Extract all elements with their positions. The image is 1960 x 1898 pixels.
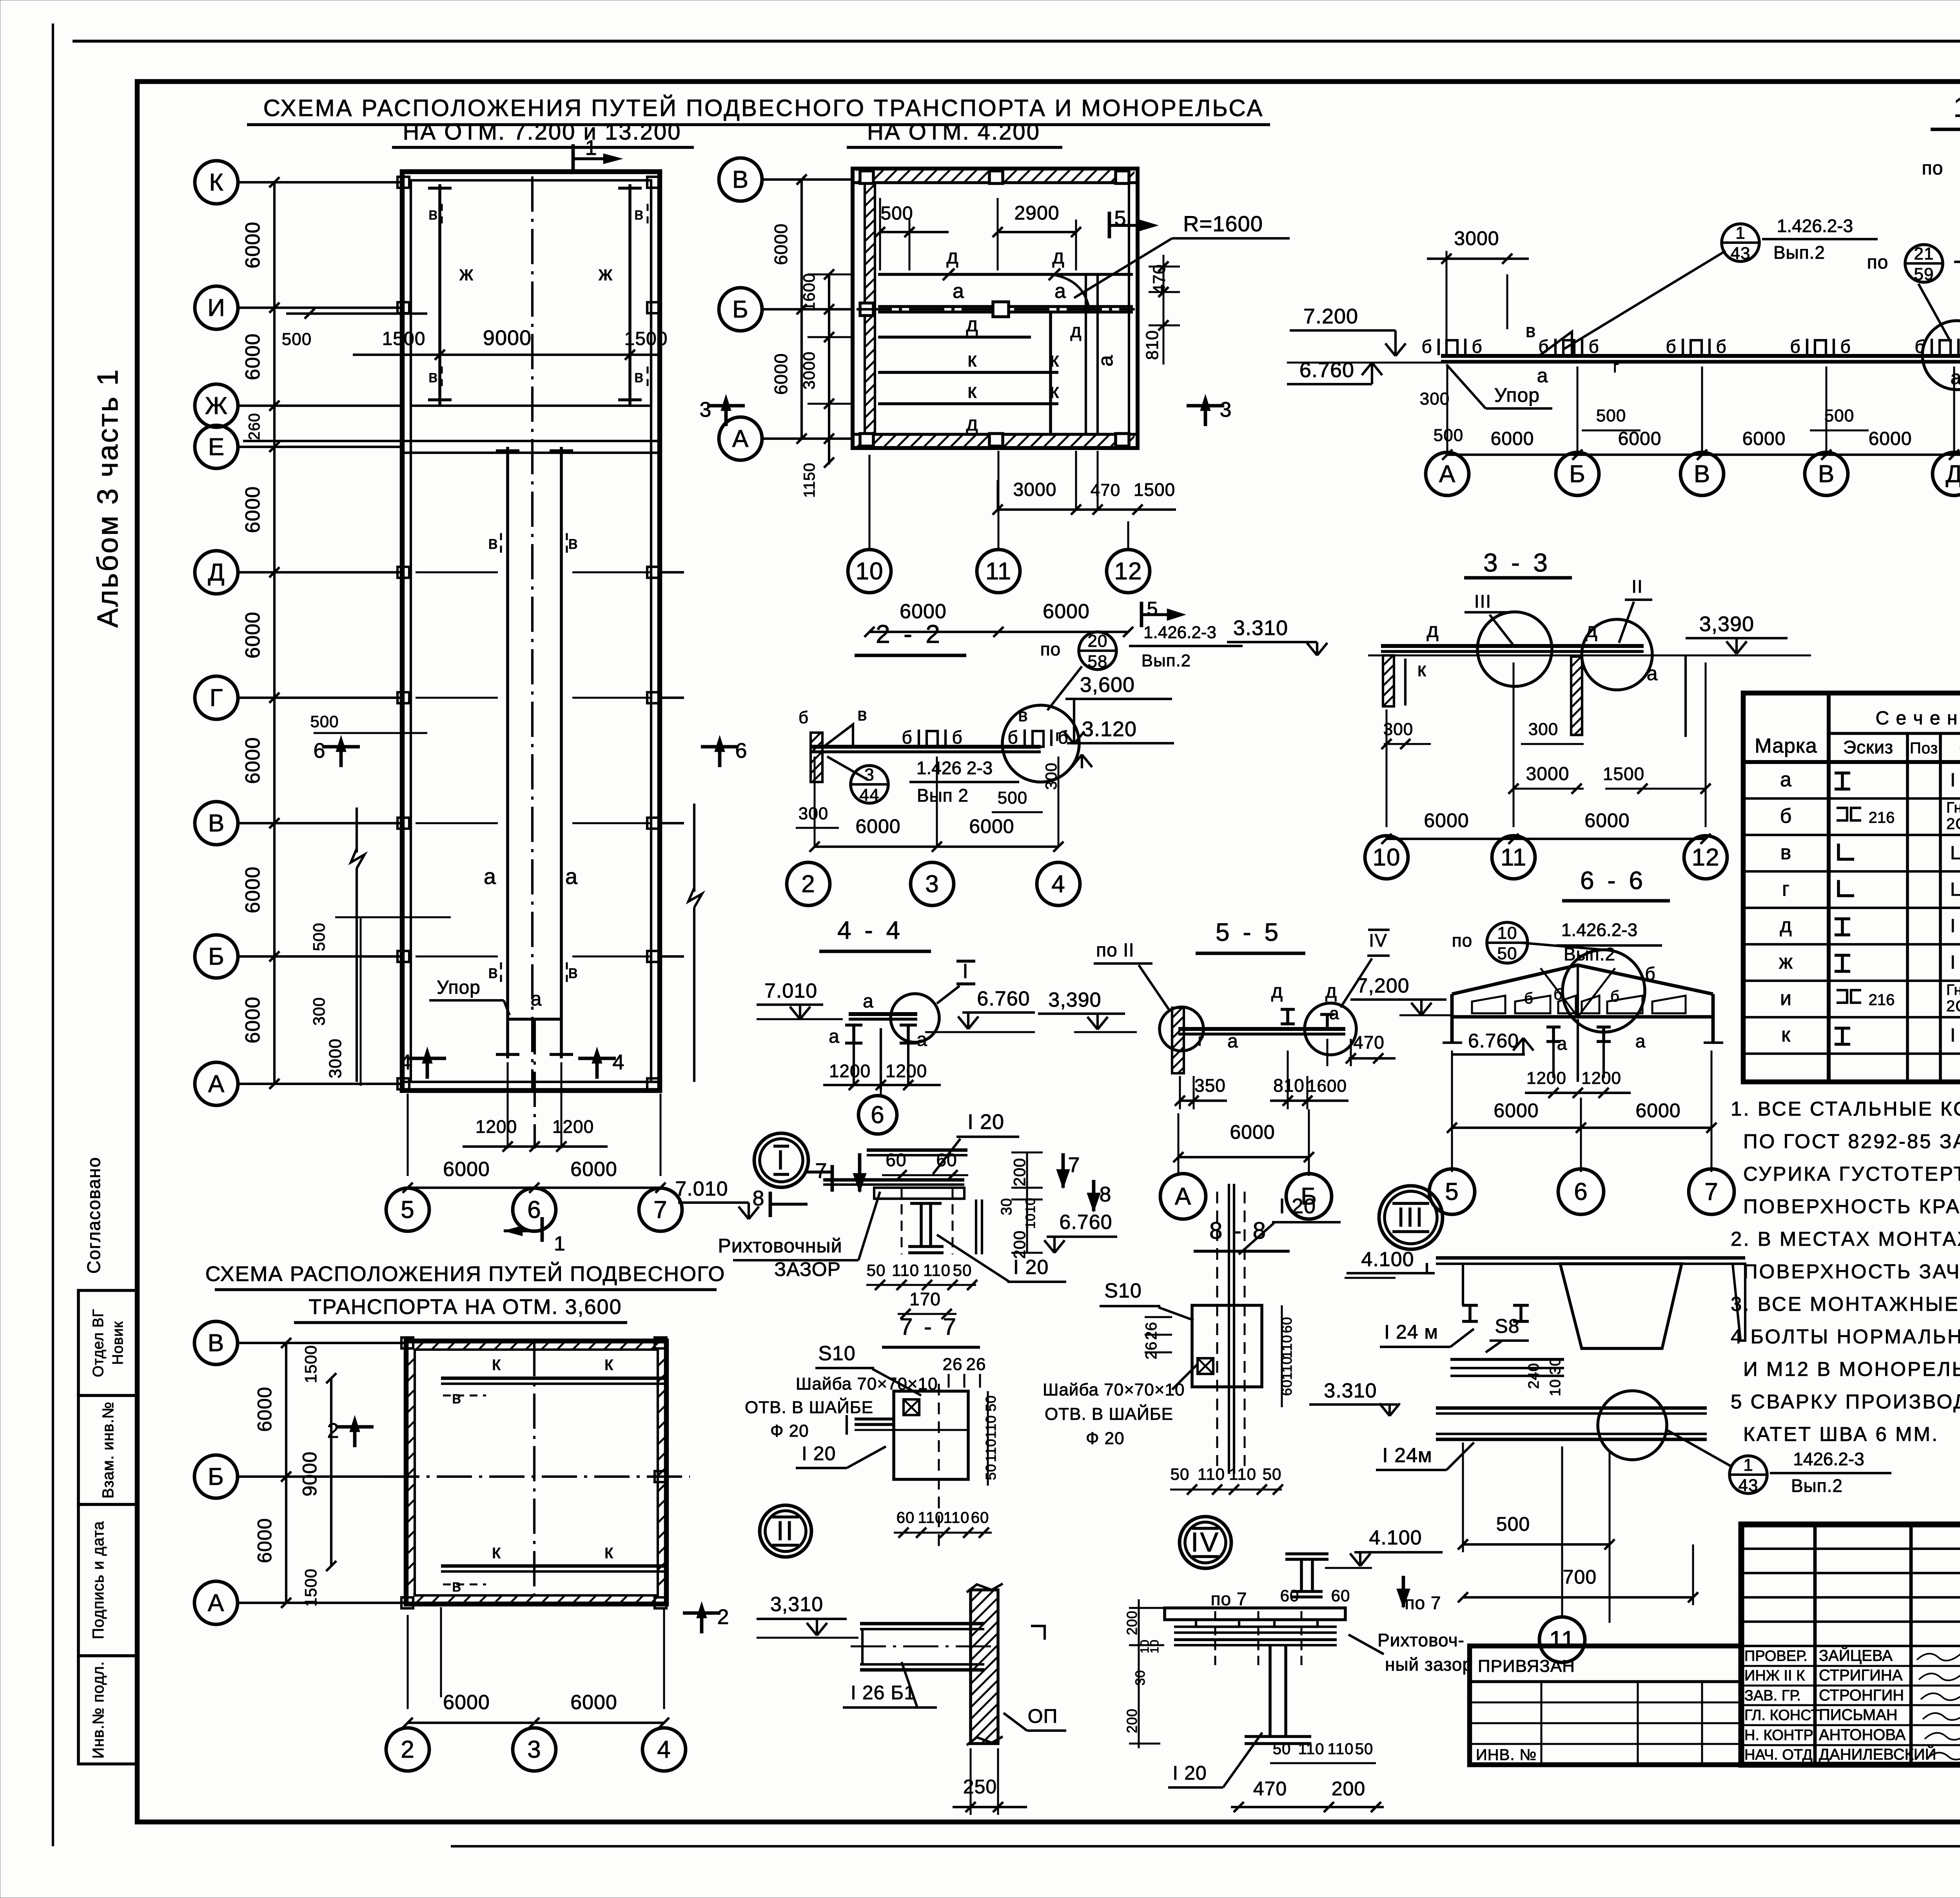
- svg-text:10: 10: [1148, 1639, 1161, 1653]
- svg-text:I 24м: I 24м: [1382, 1444, 1432, 1467]
- svg-text:6000: 6000: [570, 1691, 617, 1714]
- svg-text:6000: 6000: [241, 333, 264, 380]
- svg-text:60: 60: [936, 1150, 957, 1170]
- svg-text:б: б: [1524, 990, 1534, 1007]
- svg-text:в: в: [428, 204, 438, 223]
- svg-text:50: 50: [1263, 1465, 1282, 1483]
- svg-text:а: а: [953, 280, 964, 303]
- svg-text:Поз: Поз: [1910, 740, 1938, 757]
- svg-text:6000: 6000: [969, 815, 1014, 837]
- svg-text:ЗАЙЦЕВА: ЗАЙЦЕВА: [1819, 1646, 1893, 1664]
- svg-text:Б: Б: [208, 1463, 224, 1490]
- svg-text:6000: 6000: [1043, 600, 1090, 623]
- svg-text:1.426.2-3: 1.426.2-3: [1561, 920, 1637, 940]
- svg-text:С е ч е н и е: С е ч е н и е: [1875, 708, 1960, 729]
- svg-text:110: 110: [918, 1509, 944, 1526]
- svg-text:по II: по II: [1096, 940, 1134, 961]
- svg-text:250: 250: [963, 1776, 997, 1798]
- svg-text:7.010: 7.010: [675, 1178, 728, 1200]
- svg-text:500: 500: [310, 922, 328, 951]
- svg-text:11: 11: [1549, 1626, 1575, 1653]
- svg-text:г: г: [1613, 357, 1619, 376]
- svg-text:ПРИВЯЗАН: ПРИВЯЗАН: [1478, 1657, 1575, 1676]
- svg-text:300: 300: [799, 804, 828, 823]
- svg-text:ГЛ. КОНСТ: ГЛ. КОНСТ: [1744, 1707, 1820, 1724]
- svg-text:2. В МЕСТАХ МОНТАЖНЫХ СТЫКОВ: 2. В МЕСТАХ МОНТАЖНЫХ СТЫКОВ МОНОРЕЛЬСА …: [1731, 1228, 1960, 1250]
- svg-text:ПИСЬМАН: ПИСЬМАН: [1819, 1706, 1898, 1724]
- svg-text:1: 1: [1735, 223, 1745, 243]
- svg-text:Г: Г: [210, 684, 223, 711]
- svg-text:в: в: [452, 1388, 461, 1407]
- svg-text:1500: 1500: [301, 1345, 320, 1383]
- svg-text:10: 10: [1023, 1213, 1038, 1229]
- svg-text:а: а: [829, 1026, 840, 1047]
- svg-text:110: 110: [1198, 1465, 1225, 1483]
- svg-text:6000: 6000: [241, 486, 264, 533]
- svg-text:по 7: по 7: [1211, 1589, 1247, 1609]
- svg-text:30: 30: [1547, 1357, 1564, 1375]
- svg-text:а: а: [1329, 1004, 1339, 1023]
- svg-text:д: д: [966, 313, 978, 336]
- svg-text:д: д: [1325, 980, 1337, 1002]
- svg-text:8: 8: [752, 1187, 764, 1210]
- svg-text:I 20: I 20: [1950, 770, 1960, 791]
- svg-text:2900: 2900: [1014, 202, 1059, 224]
- svg-text:6000: 6000: [771, 353, 791, 395]
- svg-text:СТРОНГИН: СТРОНГИН: [1819, 1687, 1904, 1704]
- svg-text:7.010: 7.010: [764, 980, 817, 1002]
- svg-text:I: I: [777, 1145, 786, 1175]
- svg-text:д: д: [946, 245, 958, 268]
- svg-text:Рихтовоч-: Рихтовоч-: [1377, 1630, 1465, 1650]
- svg-text:И М12 В МОНОРЕЛЬСАХ ГОСТ: И М12 В МОНОРЕЛЬСАХ ГОСТ 7798-70ˣ , ГАЙК…: [1743, 1357, 1960, 1380]
- svg-text:1500: 1500: [624, 328, 668, 349]
- svg-text:58: 58: [1088, 652, 1108, 671]
- svg-text:6000: 6000: [1424, 809, 1469, 831]
- svg-text:Эскиз: Эскиз: [1843, 737, 1893, 757]
- svg-text:IV: IV: [1369, 930, 1387, 951]
- svg-text:470: 470: [1353, 1032, 1385, 1052]
- svg-text:500: 500: [880, 203, 913, 224]
- svg-text:I 24 м: I 24 м: [1384, 1321, 1438, 1343]
- svg-text:1: 1: [554, 1232, 566, 1255]
- svg-text:а: а: [565, 864, 578, 889]
- svg-text:110: 110: [944, 1509, 970, 1526]
- svg-text:1: 1: [1743, 1455, 1753, 1475]
- svg-text:И: И: [207, 294, 225, 321]
- svg-text:7: 7: [1068, 1153, 1080, 1177]
- svg-text:а: а: [531, 988, 542, 1010]
- svg-text:Б: Б: [732, 296, 749, 323]
- svg-text:А: А: [1439, 461, 1455, 488]
- svg-text:10: 10: [1373, 844, 1401, 871]
- svg-text:ПРОВЕР.: ПРОВЕР.: [1744, 1648, 1808, 1664]
- svg-text:6000: 6000: [1618, 428, 1662, 449]
- svg-text:43: 43: [1731, 244, 1751, 263]
- svg-text:3.310: 3.310: [1233, 616, 1288, 640]
- svg-text:3000: 3000: [1013, 479, 1057, 500]
- svg-text:I 20: I 20: [967, 1110, 1004, 1134]
- svg-text:4 БОЛТЫ НОРМАЛЬНОЙ ТОЧНОСТИ: 4 БОЛТЫ НОРМАЛЬНОЙ ТОЧНОСТИ М16 В ПОДКРА…: [1731, 1325, 1960, 1348]
- svg-text:к: к: [604, 1541, 613, 1562]
- svg-text:4.100: 4.100: [1361, 1248, 1414, 1271]
- svg-text:1. ВСЕ СТАЛЬНЫЕ КОНСТРУКЦИИ ОК: 1. ВСЕ СТАЛЬНЫЕ КОНСТРУКЦИИ ОКРАСИТЬ МАС…: [1731, 1097, 1960, 1120]
- svg-text:в: в: [634, 204, 644, 223]
- svg-text:Вып.2: Вып.2: [1791, 1475, 1843, 1496]
- svg-text:9000: 9000: [299, 1451, 321, 1496]
- svg-text:1 - 1: 1 - 1: [1953, 92, 1960, 123]
- svg-text:3,600: 3,600: [1080, 673, 1135, 697]
- svg-text:500: 500: [1434, 426, 1463, 445]
- svg-text:б: б: [1716, 336, 1726, 357]
- svg-text:Д: Д: [1946, 461, 1960, 488]
- svg-text:3,390: 3,390: [1048, 989, 1101, 1011]
- svg-text:6000: 6000: [1494, 1100, 1539, 1121]
- svg-text:3: 3: [925, 871, 939, 898]
- svg-text:Гн пр.: Гн пр.: [1946, 982, 1960, 998]
- svg-text:I 20: I 20: [1172, 1762, 1207, 1784]
- svg-text:60: 60: [897, 1509, 915, 1526]
- svg-text:6000: 6000: [1869, 428, 1912, 449]
- svg-text:III: III: [1397, 1202, 1425, 1232]
- svg-text:д: д: [1426, 619, 1439, 642]
- svg-text:43: 43: [1739, 1476, 1759, 1495]
- svg-text:а: а: [863, 991, 874, 1012]
- svg-text:5: 5: [1445, 1178, 1459, 1205]
- svg-text:810: 810: [1273, 1075, 1305, 1096]
- svg-text:ПОВЕРХНОСТЬ КРАСКА НЕ НАН: ПОВЕРХНОСТЬ КРАСКА НЕ НАНОСИТСЯ.: [1743, 1195, 1960, 1218]
- svg-text:б: б: [1472, 336, 1482, 357]
- svg-text:Д: Д: [208, 559, 225, 586]
- svg-text:СУРИКА ГУСТОТЕРТОГО НА ОЛИФ: СУРИКА ГУСТОТЕРТОГО НА ОЛИФЕ “ОКСОЛЬ” , …: [1743, 1163, 1960, 1185]
- svg-text:НА ОТМ. 4.200: НА ОТМ. 4.200: [867, 119, 1040, 145]
- svg-text:ПО ГОСТ 8292-85 ЗА 2 РАЗА: ПО ГОСТ 8292-85 ЗА 2 РАЗА ПО ГРУНТОВКЕ И…: [1743, 1130, 1960, 1152]
- svg-text:60: 60: [1280, 1586, 1299, 1605]
- svg-text:Ф 20: Ф 20: [770, 1421, 809, 1441]
- svg-text:170: 170: [909, 1289, 941, 1309]
- svg-text:по: по: [1922, 158, 1944, 179]
- svg-text:5 - 5: 5 - 5: [1216, 918, 1281, 946]
- svg-text:IV: IV: [1191, 1527, 1220, 1557]
- svg-text:в: в: [568, 532, 578, 553]
- svg-text:Б: Б: [1569, 461, 1586, 488]
- svg-text:3 - 3: 3 - 3: [1483, 548, 1551, 577]
- svg-text:216: 216: [1869, 991, 1895, 1009]
- svg-text:1500: 1500: [382, 328, 426, 349]
- svg-text:I 20: I 20: [1279, 1194, 1316, 1218]
- svg-text:а: а: [1054, 280, 1066, 303]
- svg-text:в: в: [1018, 705, 1028, 725]
- svg-text:Упор: Упор: [437, 977, 481, 998]
- svg-text:г: г: [1198, 1031, 1204, 1050]
- svg-text:а: а: [1227, 1031, 1238, 1052]
- svg-text:3,310: 3,310: [770, 1593, 823, 1616]
- svg-text:ОТВ. В ШАЙБЕ: ОТВ. В ШАЙБЕ: [745, 1397, 873, 1417]
- svg-text:д: д: [1780, 914, 1792, 937]
- svg-text:7 - 7: 7 - 7: [900, 1314, 958, 1340]
- svg-text:НА ОТМ. 7.200 и 13.200: НА ОТМ. 7.200 и 13.200: [403, 119, 682, 145]
- svg-text:44: 44: [860, 786, 880, 805]
- svg-text:3: 3: [527, 1736, 541, 1763]
- svg-text:6000: 6000: [241, 737, 264, 784]
- svg-text:4: 4: [1051, 871, 1065, 898]
- svg-text:г: г: [1782, 878, 1790, 900]
- svg-text:б: б: [1840, 336, 1851, 357]
- svg-text:Новик: Новик: [110, 1321, 126, 1365]
- svg-text:110: 110: [983, 1439, 999, 1462]
- svg-text:ИНЖ II К: ИНЖ II К: [1744, 1668, 1805, 1684]
- svg-text:3: 3: [699, 398, 711, 421]
- svg-text:470: 470: [1091, 481, 1120, 500]
- svg-text:110: 110: [1298, 1740, 1325, 1758]
- svg-text:б: б: [1610, 988, 1620, 1005]
- svg-text:НАЧ. ОТД: НАЧ. ОТД: [1744, 1747, 1813, 1763]
- svg-text:6000: 6000: [241, 996, 264, 1043]
- svg-text:200: 200: [1124, 1708, 1140, 1733]
- svg-text:ОП: ОП: [1028, 1705, 1058, 1727]
- svg-text:30: 30: [1133, 1670, 1148, 1686]
- svg-text:6000: 6000: [241, 611, 264, 659]
- svg-text:б: б: [1790, 336, 1800, 357]
- svg-text:Упор: Упор: [1494, 384, 1540, 406]
- svg-text:и: и: [1780, 987, 1792, 1010]
- svg-text:А: А: [208, 1590, 224, 1617]
- svg-text:1500: 1500: [1603, 764, 1644, 784]
- svg-text:6000: 6000: [443, 1691, 490, 1714]
- svg-text:д: д: [1070, 321, 1082, 341]
- svg-text:200: 200: [1124, 1610, 1140, 1635]
- svg-text:6.760: 6.760: [977, 987, 1030, 1010]
- svg-text:1150: 1150: [801, 463, 818, 498]
- svg-text:В: В: [1694, 461, 1710, 488]
- svg-text:I 24М: I 24М: [1950, 1025, 1960, 1046]
- svg-text:1426.2-3: 1426.2-3: [1793, 1449, 1864, 1469]
- svg-text:1200: 1200: [475, 1116, 517, 1137]
- svg-text:500: 500: [1596, 406, 1626, 425]
- svg-text:26: 26: [1143, 1341, 1160, 1360]
- svg-text:б: б: [1588, 336, 1599, 357]
- svg-text:Шайба 70×70×10: Шайба 70×70×10: [1043, 1380, 1185, 1399]
- svg-text:ТРАНСПОРТА НА ОТМ. 3,600: ТРАНСПОРТА НА ОТМ. 3,600: [309, 1295, 622, 1319]
- svg-text:А: А: [208, 1071, 225, 1098]
- svg-text:3.310: 3.310: [1324, 1379, 1377, 1402]
- svg-text:10: 10: [1497, 924, 1517, 943]
- svg-text:КАТЕТ ШВА 6 ММ.: КАТЕТ ШВА 6 ММ.: [1743, 1423, 1939, 1445]
- svg-text:11: 11: [985, 558, 1011, 585]
- svg-text:б: б: [952, 727, 962, 748]
- svg-text:50: 50: [1497, 944, 1517, 963]
- svg-text:д: д: [1052, 245, 1064, 268]
- svg-text:4: 4: [612, 1051, 624, 1074]
- svg-text:12: 12: [1692, 844, 1720, 871]
- svg-text:Инв.№ подл.: Инв.№ подл.: [90, 1661, 107, 1758]
- svg-text:к: к: [1781, 1023, 1791, 1046]
- svg-text:б: б: [799, 708, 809, 727]
- svg-text:12: 12: [1114, 558, 1142, 585]
- svg-text:110: 110: [923, 1261, 951, 1279]
- svg-text:ИНВ. №: ИНВ. №: [1476, 1746, 1537, 1764]
- svg-text:6000: 6000: [570, 1158, 617, 1181]
- svg-text:60: 60: [971, 1509, 989, 1526]
- svg-text:I 20: I 20: [802, 1443, 836, 1464]
- svg-text:К: К: [209, 169, 223, 196]
- svg-text:1: 1: [585, 136, 597, 160]
- svg-text:1600: 1600: [800, 273, 818, 311]
- svg-text:Вып.2: Вып.2: [1773, 242, 1825, 263]
- svg-text:3000: 3000: [1454, 227, 1499, 249]
- svg-text:300: 300: [1043, 762, 1060, 790]
- svg-text:СХЕМА РАСПОЛОЖЕНИЯ ПУТЕЙ ПО: СХЕМА РАСПОЛОЖЕНИЯ ПУТЕЙ ПОДВЕСНОГО ТРАН…: [263, 95, 1264, 121]
- svg-text:10: 10: [856, 558, 884, 585]
- svg-text:350: 350: [1194, 1075, 1226, 1096]
- svg-text:5: 5: [1147, 598, 1158, 620]
- svg-text:ный зазор: ный зазор: [1385, 1654, 1473, 1675]
- svg-text:9000: 9000: [483, 326, 532, 350]
- svg-text:в: в: [1526, 321, 1536, 341]
- svg-text:Марка: Марка: [1755, 735, 1817, 757]
- svg-text:4: 4: [657, 1736, 671, 1763]
- svg-text:Отдел ВГ: Отдел ВГ: [90, 1309, 107, 1377]
- svg-text:3.120: 3.120: [1082, 717, 1137, 741]
- svg-text:500: 500: [310, 712, 339, 731]
- svg-text:Вып.2: Вып.2: [1142, 651, 1191, 670]
- svg-text:6: 6: [313, 739, 325, 762]
- svg-text:260: 260: [246, 413, 263, 440]
- svg-text:Н. КОНТР: Н. КОНТР: [1744, 1727, 1813, 1744]
- svg-text:ж: ж: [459, 262, 474, 285]
- svg-text:300: 300: [310, 997, 328, 1025]
- svg-text:III: III: [1474, 591, 1492, 611]
- svg-text:50: 50: [953, 1261, 972, 1279]
- svg-text:5: 5: [401, 1196, 414, 1223]
- svg-text:ОТВ. В ШАЙБЕ: ОТВ. В ШАЙБЕ: [1045, 1404, 1173, 1424]
- svg-text:6000: 6000: [1635, 1100, 1681, 1121]
- svg-text:3,390: 3,390: [1699, 612, 1754, 636]
- svg-text:I 26 Б1: I 26 Б1: [1950, 916, 1960, 936]
- svg-text:6: 6: [1574, 1178, 1588, 1205]
- svg-text:В: В: [1818, 461, 1835, 488]
- svg-text:6000: 6000: [1230, 1121, 1275, 1143]
- svg-text:26: 26: [943, 1355, 963, 1374]
- svg-text:26: 26: [1143, 1322, 1160, 1340]
- svg-text:СХЕМА РАСПОЛОЖЕНИЯ ПУТЕЙ ПОДВЕ: СХЕМА РАСПОЛОЖЕНИЯ ПУТЕЙ ПОДВЕСНОГО: [205, 1262, 726, 1286]
- svg-text:6000: 6000: [855, 815, 900, 837]
- svg-text:б: б: [1645, 964, 1655, 984]
- svg-text:6000: 6000: [241, 866, 264, 913]
- svg-text:в: в: [857, 704, 867, 724]
- svg-text:50: 50: [1171, 1465, 1190, 1483]
- svg-text:1200: 1200: [829, 1061, 871, 1081]
- svg-text:Согласовано: Согласовано: [83, 1157, 104, 1274]
- svg-text:б: б: [1007, 727, 1018, 748]
- svg-text:3: 3: [864, 765, 874, 784]
- svg-text:4 - 4: 4 - 4: [837, 916, 903, 944]
- svg-text:2: 2: [717, 1605, 729, 1629]
- svg-text:5 СВАРКУ ПРОИЗВОДИТЬ ЭЛЕКТРО: 5 СВАРКУ ПРОИЗВОДИТЬ ЭЛЕКТРОДАМИ ТИПА Э4…: [1731, 1390, 1960, 1413]
- svg-text:Е: Е: [208, 434, 225, 461]
- svg-text:I: I: [962, 960, 968, 983]
- svg-text:1.426 2-3: 1.426 2-3: [916, 758, 993, 778]
- svg-text:3. ВСЕ МОНТАЖНЫЕ СОЕДИНЕНИЯ: 3. ВСЕ МОНТАЖНЫЕ СОЕДИНЕНИЯ НА БОЛТАХ И …: [1731, 1293, 1960, 1315]
- svg-text:6000: 6000: [1491, 428, 1534, 449]
- svg-text:200: 200: [1010, 1230, 1029, 1259]
- svg-text:3000: 3000: [326, 1038, 345, 1078]
- svg-text:в: в: [488, 962, 498, 982]
- svg-text:Взам. инв.№: Взам. инв.№: [100, 1401, 117, 1499]
- svg-text:к: к: [604, 1352, 613, 1374]
- svg-text:б: б: [902, 727, 912, 748]
- svg-text:А: А: [732, 425, 749, 452]
- svg-text:д: д: [1271, 980, 1283, 1002]
- svg-text:470: 470: [1253, 1778, 1287, 1800]
- svg-text:500: 500: [998, 788, 1027, 807]
- svg-text:810: 810: [1143, 330, 1162, 360]
- svg-text:к: к: [1417, 659, 1426, 680]
- svg-text:Ж: Ж: [205, 392, 228, 419]
- svg-text:L100×7: L100×7: [1950, 879, 1960, 900]
- svg-text:Б: Б: [208, 943, 225, 970]
- svg-text:Альбом 3 часть 1: Альбом 3 часть 1: [91, 368, 124, 628]
- svg-text:200: 200: [1332, 1778, 1365, 1800]
- svg-text:по: по: [1867, 252, 1889, 273]
- svg-text:6000: 6000: [254, 1386, 276, 1432]
- svg-text:50: 50: [867, 1261, 886, 1279]
- svg-text:7.200: 7.200: [1303, 305, 1358, 328]
- svg-text:8: 8: [1099, 1183, 1111, 1206]
- svg-text:4.100: 4.100: [1369, 1526, 1422, 1549]
- svg-text:50: 50: [1355, 1740, 1374, 1758]
- svg-text:II: II: [1632, 576, 1643, 597]
- svg-text:110: 110: [1229, 1465, 1256, 1483]
- svg-text:6.760: 6.760: [1059, 1211, 1112, 1234]
- svg-text:б: б: [1421, 336, 1432, 357]
- svg-text:11: 11: [1501, 844, 1526, 871]
- svg-text:Ф 20: Ф 20: [1086, 1429, 1125, 1448]
- svg-text:26: 26: [966, 1355, 986, 1374]
- svg-text:7: 7: [653, 1196, 667, 1223]
- svg-text:г: г: [1055, 727, 1062, 744]
- svg-text:в: в: [428, 367, 438, 386]
- svg-text:1200: 1200: [552, 1116, 594, 1137]
- svg-text:59: 59: [1914, 265, 1934, 284]
- svg-text:2: 2: [401, 1736, 414, 1763]
- svg-text:Подпись и дата: Подпись и дата: [90, 1521, 107, 1639]
- svg-text:1.426.2-3: 1.426.2-3: [1777, 216, 1853, 236]
- svg-text:к: к: [492, 1541, 501, 1562]
- svg-text:S10: S10: [818, 1342, 856, 1365]
- svg-text:200: 200: [1010, 1158, 1029, 1186]
- svg-text:300: 300: [1420, 389, 1450, 408]
- svg-text:а: а: [1557, 1033, 1568, 1054]
- svg-text:к: к: [967, 348, 977, 371]
- svg-text:а: а: [1780, 768, 1792, 791]
- svg-text:2: 2: [327, 1419, 339, 1443]
- svg-text:6: 6: [871, 1101, 884, 1129]
- svg-text:4: 4: [399, 1051, 412, 1074]
- svg-text:S8: S8: [1495, 1315, 1519, 1337]
- svg-text:6000: 6000: [1584, 809, 1630, 831]
- svg-text:I 20: I 20: [1013, 1256, 1049, 1279]
- svg-text:ПОВЕРХНОСТЬ ЗАЧИСТИТЬ ЗАПОД: ПОВЕРХНОСТЬ ЗАЧИСТИТЬ ЗАПОДЛИЦО С ОСНОВН…: [1743, 1260, 1960, 1283]
- svg-text:в: в: [452, 1576, 461, 1595]
- svg-text:В: В: [208, 810, 225, 837]
- svg-text:1500: 1500: [1134, 479, 1175, 500]
- svg-text:6000: 6000: [254, 1518, 276, 1563]
- svg-text:50: 50: [983, 1395, 999, 1412]
- svg-text:2: 2: [801, 871, 815, 898]
- svg-text:к: к: [967, 380, 977, 403]
- svg-text:ж: ж: [1779, 951, 1793, 973]
